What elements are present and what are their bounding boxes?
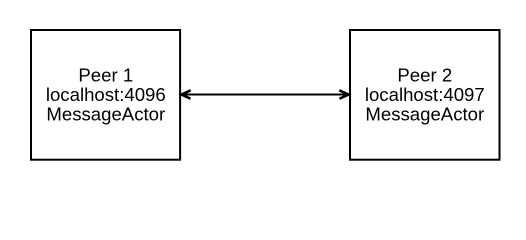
arrowhead right (pointing at Peer 2) bbox=[339, 90, 348, 98]
svg-text:MessageActor: MessageActor bbox=[365, 104, 484, 125]
wire bidirectional link between Peer 1 and Peer 2 bbox=[182, 94, 349, 96]
arrowhead left (pointing at Peer 1) bbox=[182, 90, 191, 98]
svg-text:MessageActor: MessageActor bbox=[46, 104, 165, 125]
box Peer 2 bbox=[350, 30, 500, 160]
svg-text:localhost:4096: localhost:4096 bbox=[46, 84, 166, 105]
svg-text:localhost:4097: localhost:4097 bbox=[365, 84, 485, 105]
svg-text:Peer 1: Peer 1 bbox=[78, 64, 133, 85]
box Peer 1 bbox=[31, 30, 180, 160]
svg-text:Peer 2: Peer 2 bbox=[397, 64, 452, 85]
